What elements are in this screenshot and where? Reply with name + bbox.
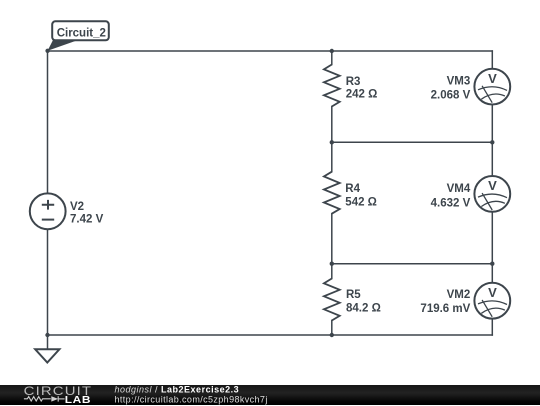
svg-text:VM3: VM3: [447, 76, 471, 88]
svg-text:V: V: [488, 285, 497, 300]
svg-text:Circuit_2: Circuit_2: [57, 27, 106, 39]
svg-text:LAB: LAB: [65, 395, 91, 406]
svg-text:VM2: VM2: [447, 289, 471, 301]
svg-text:R4: R4: [345, 183, 360, 195]
svg-text:R5: R5: [346, 289, 361, 301]
svg-text:719.6 mV: 719.6 mV: [420, 303, 470, 315]
svg-text:VM4: VM4: [447, 183, 471, 195]
svg-text:242 Ω: 242 Ω: [346, 89, 378, 101]
svg-text:V: V: [488, 71, 497, 86]
svg-text:84.2 Ω: 84.2 Ω: [346, 302, 381, 314]
svg-text:http://circuitlab.com/c5zph98k: http://circuitlab.com/c5zph98kvch7j: [115, 394, 268, 404]
svg-text:hodginsl / Lab2Exercise2.3: hodginsl / Lab2Exercise2.3: [115, 385, 240, 394]
svg-text:7.42 V: 7.42 V: [70, 214, 104, 226]
svg-text:V2: V2: [70, 201, 84, 213]
svg-text:2.068 V: 2.068 V: [431, 90, 471, 102]
svg-text:V: V: [488, 178, 497, 193]
svg-text:542 Ω: 542 Ω: [345, 197, 377, 209]
svg-text:4.632 V: 4.632 V: [431, 197, 471, 209]
svg-text:R3: R3: [346, 76, 361, 88]
